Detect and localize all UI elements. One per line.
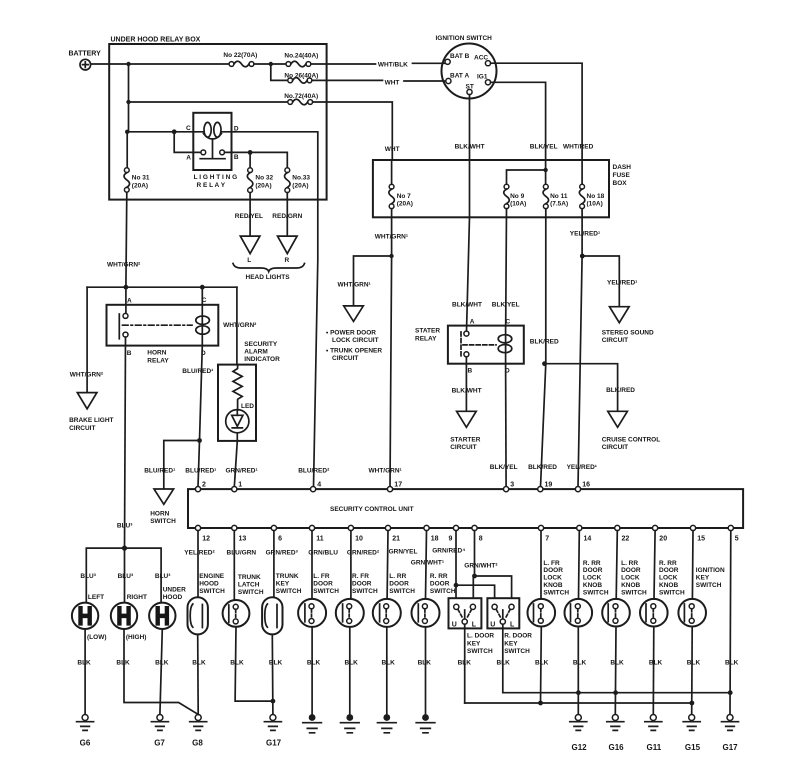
svg-text:No.24(40A): No.24(40A) bbox=[284, 53, 318, 60]
svg-text:BLK/YEL: BLK/YEL bbox=[492, 302, 520, 309]
svg-text:L I G H T I N G: L I G H T I N G bbox=[194, 174, 238, 181]
wire brake light branch bbox=[70, 287, 104, 392]
svg-text:DOOR: DOOR bbox=[543, 567, 563, 574]
svg-text:HORN: HORN bbox=[150, 511, 169, 518]
node horn switch branch bbox=[197, 438, 202, 443]
svg-text:G7: G7 bbox=[154, 738, 165, 747]
wire WHT/RED from ACC bbox=[491, 63, 594, 184]
svg-text:ALARM: ALARM bbox=[244, 349, 267, 356]
svg-text:No 22(70A): No 22(70A) bbox=[223, 52, 257, 59]
fuse No 22 (70A) bbox=[223, 52, 257, 67]
horn feed bus bbox=[87, 286, 237, 288]
svg-text:BLK/RED: BLK/RED bbox=[530, 339, 559, 346]
wire pin 5 to ground G17 bbox=[725, 531, 739, 715]
svg-text:• TRUNK OPENER: • TRUNK OPENER bbox=[326, 348, 382, 355]
node horn relay C feed bbox=[200, 285, 205, 290]
svg-text:BLK: BLK bbox=[649, 660, 663, 667]
wire pin 8 to door key switches bbox=[473, 531, 511, 599]
stater relay bbox=[415, 319, 524, 375]
svg-text:UNDER HOOD RELAY BOX: UNDER HOOD RELAY BOX bbox=[111, 37, 201, 44]
svg-text:BLK: BLK bbox=[116, 660, 130, 667]
svg-text:No 11: No 11 bbox=[550, 193, 568, 200]
svg-text:KNOB: KNOB bbox=[543, 582, 562, 589]
svg-text:BLK/RED: BLK/RED bbox=[606, 387, 635, 394]
node battery bus top bbox=[126, 62, 130, 66]
svg-text:CIRCUIT: CIRCUIT bbox=[602, 337, 628, 344]
svg-text:G16: G16 bbox=[609, 743, 625, 752]
fuse No 9 (10A) bbox=[504, 184, 527, 208]
node stereo branch bbox=[580, 254, 585, 259]
under hood relay box bbox=[109, 37, 326, 200]
svg-text:IG1: IG1 bbox=[477, 74, 488, 81]
ground G17 right bbox=[722, 715, 739, 753]
wire left horn to ground G6 bbox=[77, 629, 91, 715]
svg-text:LED: LED bbox=[241, 403, 254, 410]
wire YEL/RED1 fuse 18 to pin 16 bbox=[567, 209, 601, 487]
R RR door lock knob switch 1 bbox=[565, 531, 609, 715]
svg-text:BLK: BLK bbox=[458, 660, 472, 667]
svg-text:FUSE: FUSE bbox=[613, 172, 631, 179]
wire branch to fuse No 9 bbox=[507, 170, 546, 184]
svg-text:LOCK: LOCK bbox=[659, 575, 678, 582]
node horn relay A feed bbox=[124, 285, 129, 290]
svg-text:20: 20 bbox=[659, 536, 667, 543]
node L FR knob on lower bus bbox=[538, 701, 543, 706]
svg-text:SWITCH: SWITCH bbox=[276, 588, 302, 595]
wire GRN/RED1 indicator to pin 1 bbox=[234, 441, 237, 487]
svg-text:B: B bbox=[468, 368, 473, 375]
svg-text:HORN: HORN bbox=[147, 350, 166, 357]
svg-text:DOOR: DOOR bbox=[313, 581, 333, 588]
svg-text:(7.5A): (7.5A) bbox=[550, 200, 568, 207]
L FR door lock knob switch bbox=[528, 531, 570, 703]
ground G8 bbox=[190, 715, 207, 748]
svg-text:L. FR: L. FR bbox=[543, 560, 560, 567]
svg-text:R: R bbox=[285, 257, 290, 264]
svg-text:11: 11 bbox=[316, 536, 324, 543]
svg-text:WHT/GRN²: WHT/GRN² bbox=[70, 371, 104, 378]
ground G7 bbox=[151, 715, 168, 748]
node fuse 32 drop bbox=[248, 150, 253, 155]
pin 21 bbox=[385, 525, 400, 542]
svg-text:SECURITY: SECURITY bbox=[244, 341, 278, 348]
svg-text:2: 2 bbox=[202, 482, 206, 489]
svg-text:BLU/RED²: BLU/RED² bbox=[298, 467, 330, 474]
svg-text:C: C bbox=[506, 319, 511, 326]
svg-text:INDICATOR: INDICATOR bbox=[244, 356, 280, 363]
svg-text:L. RR: L. RR bbox=[389, 573, 406, 580]
svg-text:22: 22 bbox=[622, 536, 630, 543]
trunk key switch bbox=[262, 531, 302, 715]
ground G11 bbox=[645, 715, 662, 753]
pin 6 bbox=[271, 525, 282, 542]
pin 9 bbox=[449, 525, 459, 542]
fuse No 7 (20A) bbox=[389, 160, 413, 209]
arrow brake light circuit bbox=[69, 393, 113, 432]
lighting relay bbox=[186, 113, 239, 189]
svg-text:BLK: BLK bbox=[610, 660, 624, 667]
svg-text:DOOR: DOOR bbox=[352, 581, 372, 588]
L RR door lock knob switch bbox=[602, 531, 647, 715]
svg-text:BLU³: BLU³ bbox=[117, 523, 133, 530]
svg-text:KNOB: KNOB bbox=[583, 582, 602, 589]
svg-text:G12: G12 bbox=[572, 743, 588, 752]
svg-text:KEY: KEY bbox=[504, 640, 518, 647]
svg-text:GRN/RED³: GRN/RED³ bbox=[266, 550, 299, 557]
pin 13 bbox=[232, 525, 247, 542]
svg-text:No 31: No 31 bbox=[132, 175, 150, 182]
svg-text:YEL/RED¹: YEL/RED¹ bbox=[567, 464, 597, 471]
ground R RR door switch bbox=[416, 714, 435, 733]
pin 16 bbox=[575, 482, 590, 492]
node horn splitter bbox=[122, 546, 127, 551]
svg-text:L. RR: L. RR bbox=[621, 560, 638, 567]
svg-text:L: L bbox=[472, 621, 477, 628]
wire BLU/RED1 horn relay D to pin 2 bbox=[182, 346, 213, 487]
label row above control unit left bbox=[144, 467, 257, 474]
headlight L arrow bbox=[240, 236, 260, 264]
svg-text:BLU³: BLU³ bbox=[155, 573, 171, 580]
horn relay bbox=[107, 287, 219, 364]
wire BLK/YEL fuse 9 to stater relay coil bbox=[492, 209, 520, 326]
svg-text:L. FR: L. FR bbox=[313, 573, 330, 580]
svg-text:R. RR: R. RR bbox=[430, 573, 448, 580]
svg-text:SECURITY CONTROL UNIT: SECURITY CONTROL UNIT bbox=[330, 506, 414, 513]
pin 18 bbox=[424, 525, 439, 542]
svg-text:BLK/WHT: BLK/WHT bbox=[455, 144, 485, 151]
svg-text:A: A bbox=[470, 319, 475, 326]
R door key switch bbox=[487, 598, 532, 655]
svg-text:(20A): (20A) bbox=[132, 182, 148, 189]
ground R FR door switch bbox=[341, 714, 360, 733]
wire BLU/RED1 horn relay B down to horns bbox=[117, 337, 133, 548]
svg-text:RED/YEL: RED/YEL bbox=[235, 213, 263, 220]
svg-text:L: L bbox=[247, 257, 251, 264]
fuse No.33 (20A) bbox=[285, 168, 311, 193]
svg-text:YEL/RED²: YEL/RED² bbox=[184, 550, 215, 557]
node fuse24/26 branch bbox=[269, 62, 273, 66]
wire BLK/WHT stater relay B to starter arrow bbox=[452, 357, 482, 412]
svg-text:BLK/RED: BLK/RED bbox=[528, 464, 557, 471]
wire under hood horn to ground G7 bbox=[155, 629, 169, 715]
pin 12 bbox=[195, 525, 210, 542]
svg-text:B: B bbox=[234, 154, 239, 161]
svg-text:LOCK: LOCK bbox=[621, 575, 640, 582]
pin 17 bbox=[387, 482, 402, 492]
ignition switch bbox=[436, 35, 497, 99]
svg-text:LOCK: LOCK bbox=[583, 575, 602, 582]
arrow horn switch bbox=[150, 489, 176, 525]
svg-text:KEY: KEY bbox=[696, 575, 710, 582]
svg-text:BLK: BLK bbox=[573, 660, 587, 667]
svg-text:ST: ST bbox=[466, 84, 474, 91]
svg-text:No 9: No 9 bbox=[510, 193, 524, 200]
wire lighting relay feed bbox=[127, 131, 196, 133]
svg-text:WHT/RED: WHT/RED bbox=[563, 144, 594, 151]
svg-text:WHT/GRN¹: WHT/GRN¹ bbox=[338, 282, 371, 289]
wire fuse22 to fuse24 bbox=[254, 63, 286, 65]
wire branch to power door lock circuit bbox=[338, 256, 392, 306]
svg-text:BLK/YEL: BLK/YEL bbox=[530, 144, 558, 151]
svg-text:BLK: BLK bbox=[687, 660, 701, 667]
svg-text:B: B bbox=[127, 350, 132, 357]
svg-text:No.72(40A): No.72(40A) bbox=[284, 93, 318, 100]
ground G16 bbox=[607, 715, 624, 753]
ground L FR door switch bbox=[303, 714, 322, 733]
svg-text:R. FR: R. FR bbox=[352, 573, 369, 580]
svg-text:BLK/YEL: BLK/YEL bbox=[490, 464, 518, 471]
ignition key switch bbox=[678, 531, 725, 715]
label row below control unit bbox=[184, 548, 498, 570]
svg-text:YEL/RED¹: YEL/RED¹ bbox=[570, 230, 600, 237]
lower ground bus bbox=[465, 702, 692, 704]
wire WHT/GRN2 to security alarm indicator bbox=[223, 287, 257, 364]
wire pin 9 to door key switches bbox=[456, 531, 495, 599]
node G17 on upper bus bbox=[728, 690, 733, 695]
pin 10 bbox=[348, 525, 363, 542]
svg-text:BATTERY: BATTERY bbox=[69, 51, 102, 58]
node fuse 72 branch bbox=[126, 100, 130, 104]
fuse No 26 (40A) bbox=[284, 72, 318, 83]
svg-text:CIRCUIT: CIRCUIT bbox=[332, 355, 358, 362]
horn right (high) bbox=[111, 594, 147, 641]
pin 14 bbox=[577, 525, 592, 542]
pin 1 bbox=[232, 482, 243, 492]
svg-text:17: 17 bbox=[394, 482, 402, 489]
svg-text:BLK: BLK bbox=[725, 660, 739, 667]
svg-text:BLU/RED¹: BLU/RED¹ bbox=[185, 467, 216, 474]
svg-text:G17: G17 bbox=[266, 738, 282, 747]
svg-text:SWITCH: SWITCH bbox=[313, 588, 339, 595]
engine hood switch bbox=[188, 531, 226, 715]
svg-text:G15: G15 bbox=[685, 743, 701, 752]
svg-text:BLU³: BLU³ bbox=[118, 573, 134, 580]
svg-text:BAT B: BAT B bbox=[450, 53, 470, 60]
node lighting relay bypass bbox=[172, 129, 177, 134]
svg-text:ENGINE: ENGINE bbox=[199, 573, 225, 580]
svg-text:WHT/GRN²: WHT/GRN² bbox=[107, 262, 141, 269]
svg-text:C: C bbox=[186, 125, 191, 132]
svg-text:SWITCH: SWITCH bbox=[238, 589, 264, 596]
svg-text:HOOD: HOOD bbox=[199, 581, 219, 588]
svg-text:BRAKE LIGHT: BRAKE LIGHT bbox=[69, 417, 113, 424]
arrow stereo sound circuit bbox=[602, 307, 654, 344]
svg-text:DOOR: DOOR bbox=[659, 567, 679, 574]
arrow starter circuit bbox=[450, 411, 481, 451]
pin 3 bbox=[504, 482, 515, 492]
svg-text:HEAD LIGHTS: HEAD LIGHTS bbox=[246, 274, 291, 281]
wire RED/YEL to left headlight bbox=[235, 193, 263, 237]
svg-text:L. DOOR: L. DOOR bbox=[467, 633, 494, 640]
pin 11 bbox=[309, 525, 323, 542]
arrow power door lock circuit bbox=[326, 306, 382, 362]
svg-text:GRN/RED⁴: GRN/RED⁴ bbox=[432, 548, 465, 555]
svg-text:WHT/GRN¹: WHT/GRN¹ bbox=[375, 234, 408, 241]
svg-text:UNDER: UNDER bbox=[163, 586, 186, 593]
wire fuse 32 drop bbox=[249, 152, 251, 167]
svg-text:15: 15 bbox=[697, 536, 705, 543]
wire WHT/GRN2 from fuse 31 to horn bus bbox=[107, 193, 141, 288]
node pin 9 split bbox=[454, 583, 459, 588]
svg-text:WHT/GRN²: WHT/GRN² bbox=[223, 322, 257, 329]
pin 20 bbox=[653, 525, 668, 542]
svg-text:SWITCH: SWITCH bbox=[352, 588, 378, 595]
L RR door switch bbox=[373, 531, 415, 715]
wire branch to horn switch bbox=[164, 441, 200, 490]
svg-text:SWITCH: SWITCH bbox=[583, 589, 609, 596]
svg-text:9: 9 bbox=[449, 536, 453, 543]
svg-text:SWITCH: SWITCH bbox=[543, 589, 569, 596]
trunk latch switch bbox=[223, 531, 273, 702]
security control unit bbox=[188, 489, 743, 528]
svg-text:4: 4 bbox=[317, 482, 321, 489]
svg-text:21: 21 bbox=[392, 536, 400, 543]
security alarm indicator bbox=[218, 341, 280, 441]
svg-text:12: 12 bbox=[202, 536, 210, 543]
svg-text:RELAY: RELAY bbox=[147, 357, 169, 364]
svg-text:R E L A Y: R E L A Y bbox=[197, 182, 226, 189]
wire BLK/YEL stater relay D to pin 3 bbox=[490, 364, 518, 487]
svg-text:CRUISE CONTROL: CRUISE CONTROL bbox=[602, 436, 661, 443]
svg-text:10: 10 bbox=[355, 536, 363, 543]
svg-text:BAT A: BAT A bbox=[450, 73, 469, 80]
pin 19 bbox=[538, 482, 553, 492]
svg-text:BLK: BLK bbox=[192, 660, 206, 667]
svg-text:R. RR: R. RR bbox=[583, 560, 601, 567]
fuse No 32 (20A) bbox=[247, 168, 273, 193]
svg-text:16: 16 bbox=[582, 482, 590, 489]
svg-text:(10A): (10A) bbox=[587, 200, 603, 207]
upper ground bus bbox=[503, 692, 730, 694]
svg-text:R. RR: R. RR bbox=[659, 560, 677, 567]
ground G6 bbox=[77, 715, 94, 748]
svg-text:SWITCH: SWITCH bbox=[430, 588, 456, 595]
fuse No.24 (40A) bbox=[284, 53, 318, 67]
battery bbox=[69, 51, 102, 70]
svg-text:SWITCH: SWITCH bbox=[389, 588, 415, 595]
horn left (low) bbox=[72, 594, 107, 641]
svg-text:SWITCH: SWITCH bbox=[621, 589, 647, 596]
svg-text:LOCK CIRCUIT: LOCK CIRCUIT bbox=[332, 337, 379, 344]
svg-text:KNOB: KNOB bbox=[659, 582, 678, 589]
svg-text:DASH: DASH bbox=[613, 164, 632, 171]
svg-text:(20A): (20A) bbox=[255, 182, 271, 189]
node lighting relay feed bbox=[125, 130, 129, 134]
svg-text:18: 18 bbox=[431, 536, 439, 543]
svg-text:L: L bbox=[510, 621, 515, 628]
svg-text:WHT/GRN¹: WHT/GRN¹ bbox=[369, 467, 402, 474]
wire branch to cruise control bbox=[545, 364, 636, 412]
svg-text:GRN/WHT¹: GRN/WHT¹ bbox=[411, 560, 444, 567]
svg-text:8: 8 bbox=[479, 536, 483, 543]
svg-text:13: 13 bbox=[239, 536, 247, 543]
svg-text:KEY: KEY bbox=[276, 581, 290, 588]
svg-text:DOOR: DOOR bbox=[389, 581, 409, 588]
wire right horn to ground bus bbox=[116, 629, 197, 714]
dash fuse box bbox=[373, 160, 631, 217]
svg-text:R. DOOR: R. DOOR bbox=[504, 633, 532, 640]
head lights brace bbox=[233, 264, 305, 282]
svg-text:BOX: BOX bbox=[613, 180, 628, 187]
svg-text:WHT: WHT bbox=[385, 146, 400, 153]
wire BLU/RED2 from relay D to control unit pin 4 bbox=[235, 132, 330, 487]
wire R door key switch to upper ground bus bbox=[497, 624, 511, 693]
svg-text:CIRCUIT: CIRCUIT bbox=[450, 444, 476, 451]
svg-text:DOOR: DOOR bbox=[430, 581, 450, 588]
svg-text:7: 7 bbox=[545, 536, 549, 543]
wire battery bus down to fuse 31 bbox=[127, 102, 128, 168]
svg-text:BLK/WHT: BLK/WHT bbox=[452, 302, 482, 309]
svg-text:No 32: No 32 bbox=[255, 175, 273, 182]
svg-text:G8: G8 bbox=[192, 738, 203, 747]
svg-text:3: 3 bbox=[510, 482, 514, 489]
svg-text:HOOD: HOOD bbox=[163, 594, 183, 601]
wire battery bus to fuse 72 bbox=[129, 64, 288, 102]
svg-text:A: A bbox=[186, 155, 191, 162]
pin 2 bbox=[195, 482, 206, 492]
svg-text:CIRCUIT: CIRCUIT bbox=[602, 444, 628, 451]
svg-text:GRN/RED²: GRN/RED² bbox=[347, 550, 380, 557]
node power door lock branch bbox=[389, 254, 393, 258]
pin 7 bbox=[538, 525, 549, 542]
svg-text:SWITCH: SWITCH bbox=[696, 582, 722, 589]
svg-text:G11: G11 bbox=[647, 743, 662, 752]
svg-text:(HIGH): (HIGH) bbox=[126, 634, 147, 641]
svg-text:No.33: No.33 bbox=[292, 175, 310, 182]
wire lighting relay bypass to contact A bbox=[174, 132, 201, 153]
svg-text:BLK: BLK bbox=[418, 660, 432, 667]
node G12 on upper bus bbox=[576, 690, 581, 695]
svg-text:6: 6 bbox=[278, 536, 282, 543]
svg-text:RELAY: RELAY bbox=[415, 335, 437, 342]
svg-text:DOOR: DOOR bbox=[621, 567, 641, 574]
svg-text:No 26(40A): No 26(40A) bbox=[284, 72, 318, 79]
ground G15 bbox=[683, 715, 700, 753]
svg-text:BLK: BLK bbox=[77, 660, 91, 667]
wire L door key switch to lower ground bus bbox=[458, 624, 472, 703]
svg-text:GRN/YEL: GRN/YEL bbox=[389, 549, 418, 556]
svg-text:1: 1 bbox=[238, 482, 242, 489]
svg-text:SWITCH: SWITCH bbox=[150, 518, 176, 525]
ground L RR door switch bbox=[378, 714, 397, 733]
svg-text:DOOR: DOOR bbox=[583, 567, 603, 574]
fuse No 18 (10A) bbox=[579, 184, 604, 208]
node BLK/YEL branch to fuse 9 bbox=[543, 168, 547, 172]
svg-text:SWITCH: SWITCH bbox=[467, 648, 493, 655]
node G15 on lower bus bbox=[690, 701, 695, 706]
wire BLK/WHT from ST bbox=[452, 95, 485, 332]
svg-text:U: U bbox=[452, 621, 457, 628]
ground G17 left bbox=[264, 715, 281, 748]
svg-text:LOCK: LOCK bbox=[543, 575, 562, 582]
svg-text:19: 19 bbox=[545, 482, 553, 489]
node G16 on upper bus bbox=[613, 690, 618, 695]
svg-text:5: 5 bbox=[735, 536, 739, 543]
svg-text:LEFT: LEFT bbox=[88, 594, 104, 601]
svg-text:U: U bbox=[490, 621, 495, 628]
svg-text:BLK: BLK bbox=[155, 660, 169, 667]
wire BLK/YEL from IG1 bbox=[491, 82, 558, 184]
arrow cruise control circuit bbox=[602, 411, 661, 451]
svg-text:BLU³: BLU³ bbox=[80, 573, 96, 580]
wire WHT/BLK to ignition BAT B bbox=[311, 61, 445, 68]
R RR door switch bbox=[412, 531, 456, 715]
svg-text:TRUNK: TRUNK bbox=[238, 574, 261, 581]
pin 8 bbox=[472, 525, 483, 542]
svg-text:No 18: No 18 bbox=[587, 193, 605, 200]
svg-text:14: 14 bbox=[584, 536, 592, 543]
fuse No 11 (7.5A) bbox=[543, 184, 568, 208]
